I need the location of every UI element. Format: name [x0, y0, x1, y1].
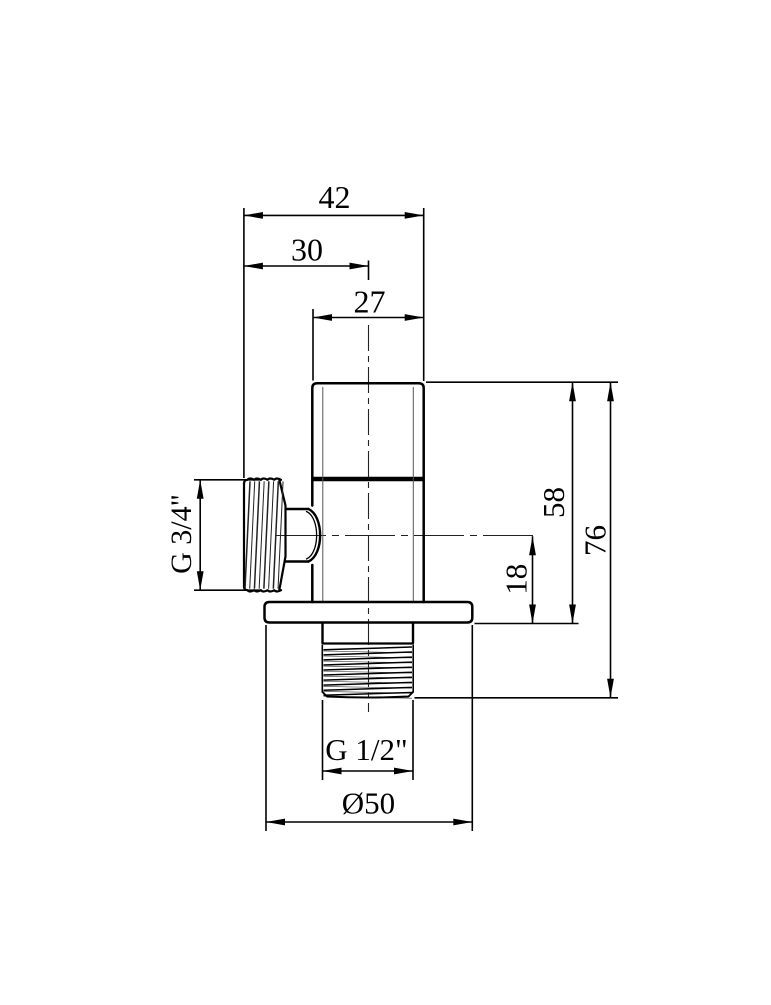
svg-text:G 3/4": G 3/4": [165, 494, 198, 574]
svg-text:76: 76: [578, 525, 613, 556]
svg-text:58: 58: [536, 487, 571, 518]
svg-text:42: 42: [319, 179, 351, 215]
svg-text:18: 18: [499, 564, 534, 595]
svg-text:Ø50: Ø50: [342, 786, 395, 821]
svg-text:27: 27: [354, 284, 386, 320]
svg-text:30: 30: [291, 232, 323, 268]
svg-text:G 1/2": G 1/2": [325, 732, 407, 767]
